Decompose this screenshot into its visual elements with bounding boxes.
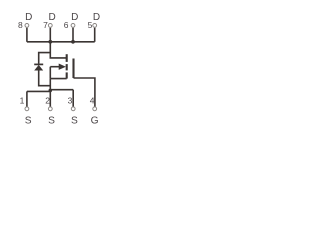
svg-text:D: D — [48, 12, 55, 23]
wire source horizontal — [50, 78, 66, 80]
svg-text:D: D — [71, 12, 78, 23]
svg-text:G: G — [91, 115, 99, 126]
transistor Q1 channel top segment — [66, 54, 68, 62]
svg-text:S: S — [25, 115, 32, 126]
wire branch to diode cathode — [39, 53, 51, 64]
wire bottom source bus left segment — [27, 90, 50, 92]
wire bottom source bus right segment — [50, 89, 73, 91]
svg-text:S: S — [71, 115, 78, 126]
svg-text:1: 1 — [20, 95, 25, 105]
wire pin7 lead down — [49, 28, 51, 42]
pin 3 terminal — [71, 107, 75, 111]
svg-text:5: 5 — [88, 20, 93, 30]
transistor Q1 gate bar — [72, 59, 74, 79]
background — [0, 0, 135, 135]
wire bus down to pin1 — [26, 91, 28, 106]
pin 2 terminal — [48, 107, 52, 111]
pin 5 terminal — [93, 24, 97, 28]
wire bus down to pin3 — [72, 90, 74, 107]
pin 6 terminal — [71, 24, 75, 28]
wire body arrow line — [50, 66, 59, 68]
wire source down to pin2 — [49, 79, 51, 107]
svg-text:8: 8 — [18, 20, 23, 30]
svg-text:6: 6 — [64, 20, 69, 30]
junction dot bottom bus pin2 — [49, 89, 53, 93]
svg-text:3: 3 — [68, 95, 73, 105]
wire pin8 lead down — [26, 28, 28, 42]
pin 7 terminal — [48, 24, 52, 28]
svg-text:D: D — [93, 12, 100, 23]
pin 8 terminal — [25, 24, 29, 28]
wire pin5 lead down — [94, 28, 96, 42]
transistor Q1 channel middle segment — [66, 64, 68, 70]
junction dot top bus pin6 — [71, 40, 75, 44]
transistor Q1 body arrowhead — [59, 64, 66, 70]
wire body drop — [49, 67, 51, 79]
wire top drain bus — [27, 41, 95, 43]
svg-text:4: 4 — [90, 95, 95, 105]
diode D1 anode triangle — [34, 65, 43, 71]
wire diode anode down — [39, 70, 51, 85]
wire pin6 lead down — [72, 28, 74, 42]
svg-text:7: 7 — [43, 20, 48, 30]
pin 4 terminal — [93, 107, 97, 111]
diode D1 cathode bar — [34, 63, 43, 65]
svg-text:2: 2 — [45, 95, 50, 105]
pin 1 terminal — [25, 107, 29, 111]
transistor Q1 channel bottom segment — [66, 72, 68, 78]
junction dot top bus pin7 — [48, 40, 52, 44]
svg-text:S: S — [48, 115, 55, 126]
svg-text:D: D — [25, 12, 32, 23]
wire gate lead to pin4 — [74, 78, 95, 107]
wire drain feed to MOSFET — [50, 42, 66, 58]
